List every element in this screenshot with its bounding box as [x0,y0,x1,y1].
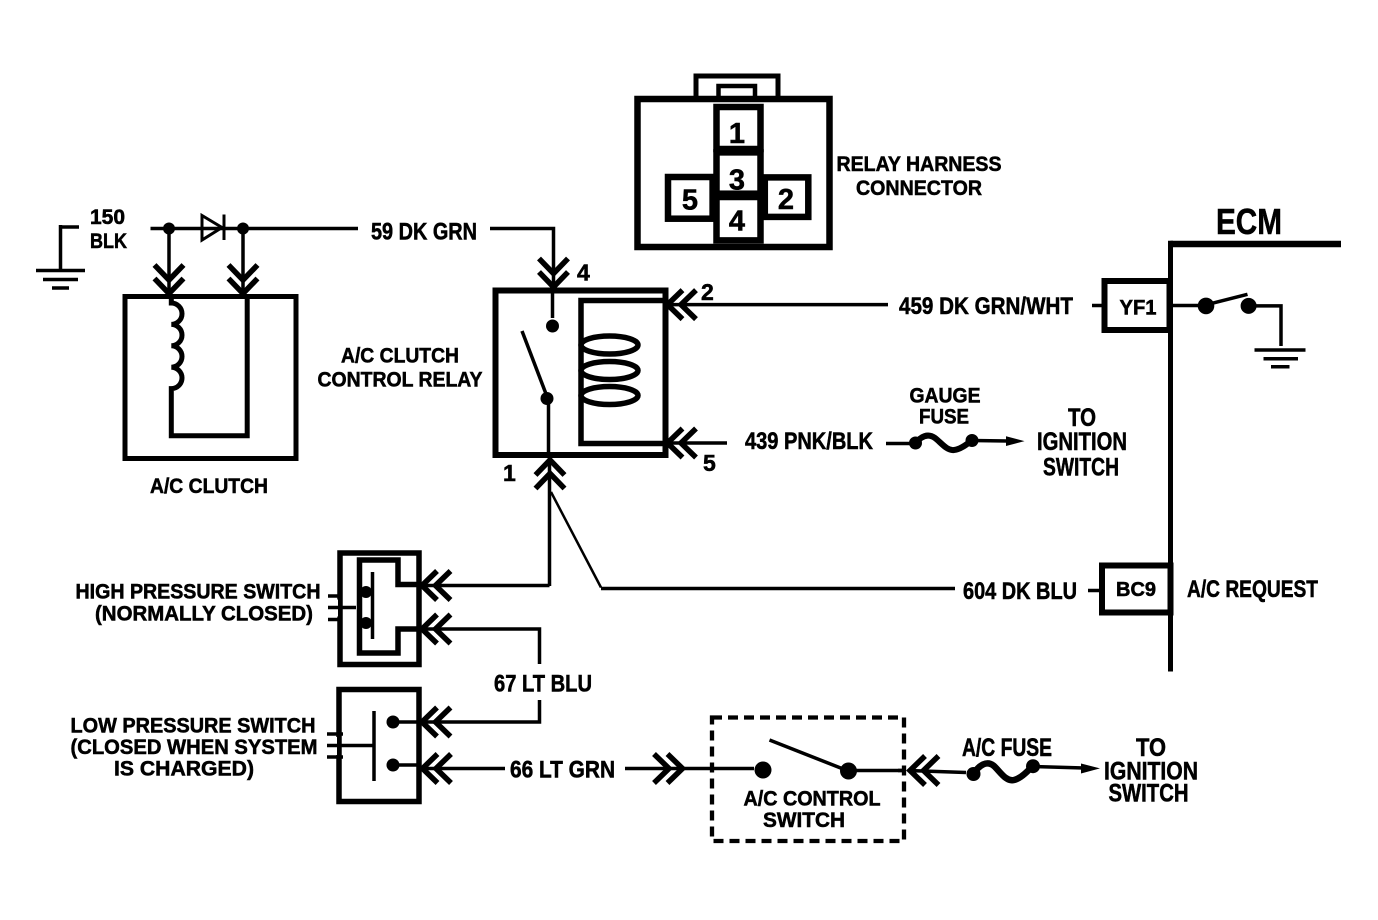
relay pin1 internal wire [547,399,551,457]
ECM switch dot right [1241,298,1257,314]
svg-text:HIGH PRESSURE SWITCH: HIGH PRESSURE SWITCH [76,581,321,604]
svg-text:RELAY HARNESS: RELAY HARNESS [837,153,1002,176]
S1 moving contact bar [371,572,375,639]
svg-text:1: 1 [503,460,516,486]
terminal YF1 box [1105,281,1170,330]
relay U1 box (A/C clutch control relay) [496,291,666,456]
svg-text:A/C REQUEST: A/C REQUEST [1187,576,1318,603]
control switch dot right [840,763,857,780]
ECM boundary top line [1171,241,1342,248]
svg-text:2: 2 [778,184,794,216]
svg-text:GAUGE: GAUGE [910,385,981,408]
svg-text:67 LT BLU: 67 LT BLU [494,671,592,698]
svg-text:604 DK BLU: 604 DK BLU [963,578,1077,605]
relay coil box [581,301,666,444]
S2 moving contact bar [372,711,376,781]
svg-text:CONTROL RELAY: CONTROL RELAY [318,369,483,392]
S2 contact dot top [387,716,400,729]
S1 inner bracket [360,560,419,653]
connector chevron relay pin 4 [539,259,568,288]
control switch blade [770,740,848,771]
svg-text:150: 150 [90,206,125,229]
ground G1 (battery ground, top left) [36,225,85,288]
connector chevron into A/C control switch [654,754,683,783]
A/C clutch box [125,297,296,459]
connector chevron clutch left [155,265,184,294]
wire out of dashed box [854,769,906,773]
S2 diaphragm lines [327,734,374,757]
relay coil winding 3 [581,387,638,405]
ECM switch dot left [1198,298,1215,315]
connector chevron clutch right [229,265,258,294]
wire 66 LT GRN [419,767,683,771]
relay contact dot bottom [541,392,554,405]
connector tab [696,76,778,99]
svg-text:ECM: ECM [1216,201,1282,242]
ECM boundary vertical line [1168,241,1173,672]
wire to A/C clutch right [241,234,245,294]
svg-text:(NORMALLY CLOSED): (NORMALLY CLOSED) [95,603,313,626]
diode D1 (clamp diode) [202,215,224,241]
svg-text:IGNITION: IGNITION [1037,428,1127,456]
wire to A/C fuse [908,771,966,773]
S2 terminal wires [393,722,417,765]
relay coil winding 2 [581,362,638,380]
svg-text:1: 1 [729,118,745,150]
svg-text:3: 3 [729,165,745,197]
svg-text:A/C FUSE: A/C FUSE [962,734,1052,762]
ECM switch blade [1212,294,1248,303]
ECM switch to ground wire [1255,306,1281,346]
node junction dot A [163,223,175,235]
svg-text:439 PNK/BLK: 439 PNK/BLK [745,428,874,455]
svg-text:SWITCH: SWITCH [1109,780,1189,808]
connector chevron S1 bottom [422,615,451,644]
connector pin 4 [717,197,761,240]
connector chevron S1 top [422,571,451,600]
svg-text:SWITCH: SWITCH [763,809,845,832]
svg-text:459 DK GRN/WHT: 459 DK GRN/WHT [899,293,1073,320]
wire 459 DK GRN/WHT [667,303,1104,307]
wire from relay pin1 down [419,456,550,586]
connector chevron after control switch [910,756,939,785]
svg-text:BC9: BC9 [1116,579,1156,601]
connector chevron relay pin 5 [668,429,697,458]
svg-text:LOW PRESSURE SWITCH: LOW PRESSURE SWITCH [71,715,316,738]
svg-text:IS CHARGED): IS CHARGED) [114,758,254,781]
svg-text:YF1: YF1 [1120,297,1157,320]
relay pin4 internal stub [551,293,555,318]
low pressure switch S2 box [339,690,419,802]
connector pin 5 [668,177,713,219]
gauge fuse F1 [909,437,922,450]
arrow to ignition switch (A/C fuse) [1033,767,1084,769]
svg-text:A/C CLUTCH: A/C CLUTCH [341,345,459,368]
connector pin 3 [717,152,761,193]
wire 67 LT BLU [419,629,540,722]
ECM internal switch wire [1171,304,1202,308]
S2 contact dot bottom [387,759,400,772]
svg-text:5: 5 [682,185,698,217]
S1 contact dot bottom [360,617,372,629]
connector pin 1 [717,107,761,149]
svg-text:SWITCH: SWITCH [1043,454,1119,482]
S1 contact dot top [360,586,372,598]
svg-text:FUSE: FUSE [919,406,969,429]
relay contact dot top [546,320,559,333]
node junction dot B [237,223,249,235]
svg-text:(CLOSED WHEN SYSTEM: (CLOSED WHEN SYSTEM [71,736,318,759]
ground G2 (ECM internal) [1255,350,1306,367]
coil L1 (clutch coil) [171,299,247,436]
wire to A/C clutch left [167,234,171,294]
svg-text:59 DK GRN: 59 DK GRN [371,219,477,246]
wire 439 PNK/BLK [667,441,910,445]
svg-text:A/C CLUTCH: A/C CLUTCH [150,475,268,498]
svg-text:4: 4 [577,260,590,286]
relay switch blade [522,331,547,397]
svg-text:4: 4 [729,206,745,238]
wire into dashed box [684,769,906,771]
A/C control switch dashed box [712,718,904,842]
control switch dot left [755,762,772,779]
A/C fuse F2 [967,767,981,781]
connector chevron S2 bottom [423,754,452,783]
S1 diaphragm lines [328,596,356,620]
connector pin 2 [765,177,809,217]
connector chevron relay pin 1 [536,460,565,489]
svg-text:CONNECTOR: CONNECTOR [856,177,982,200]
arrow to ignition switch (gauge fuse) [972,439,1008,443]
connector tab notch [719,86,756,99]
svg-text:2: 2 [701,279,714,305]
svg-text:A/C CONTROL: A/C CONTROL [744,788,881,811]
svg-text:BLK: BLK [90,230,127,253]
relay coil winding 1 [581,336,638,354]
svg-text:66 LT GRN: 66 LT GRN [510,757,615,784]
connector chevron S2 top [422,708,451,737]
wire branch to BC9 (604 DK BLU) [551,492,601,588]
connector chevron relay pin 2 [668,290,697,319]
relay harness connector body [638,99,830,247]
high pressure switch S1 box [340,553,419,665]
terminal BC9 box [1102,566,1171,613]
wire 59 DK GRN (top horizontal run) [151,229,554,290]
svg-text:5: 5 [703,450,716,476]
